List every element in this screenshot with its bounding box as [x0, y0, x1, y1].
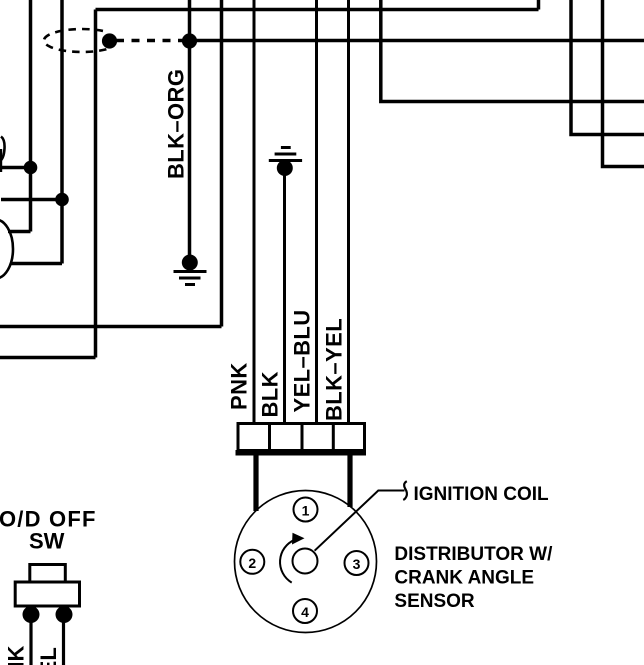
junction dot on V1 [24, 161, 38, 175]
rotation direction arc [280, 540, 295, 583]
connector bottom bar [236, 450, 367, 456]
wire V1 left vertical [29, 0, 33, 232]
rotation arrowhead [292, 533, 305, 545]
wire from left terminal [29, 614, 32, 665]
svg-text:BLK: BLK [258, 371, 283, 417]
distributor terminal 3 [345, 551, 369, 575]
wire V11 stub at top [537, 0, 541, 10]
connector block 4-cavity [238, 424, 365, 451]
svg-text:PNK: PNK [227, 362, 252, 410]
svg-text:2: 2 [248, 555, 256, 571]
component fragment stub at left edge [0, 149, 2, 172]
wire H9 short horizontal [11, 262, 62, 266]
svg-text:1: 1 [302, 503, 310, 519]
leader line to ignition coil [315, 491, 405, 551]
wire H8 short horizontal [8, 230, 31, 234]
svg-text:DISTRIBUTOR W/: DISTRIBUTOR W/ [394, 544, 553, 565]
distributor terminal 4 [293, 599, 317, 623]
wire distributor lead left [253, 455, 258, 511]
junction dot A (left end of dashed link) [102, 33, 117, 48]
svg-text:3: 3 [353, 556, 361, 572]
junction dot on V2 [55, 193, 69, 207]
wire H2 dashed segment between junctions [116, 39, 184, 43]
wire BLK-YEL vertical [347, 0, 350, 424]
distributor body circle [235, 491, 377, 633]
wire H2 solid horizontal from junction to right edge [190, 39, 644, 43]
svg-text:YEL: YEL [36, 647, 61, 665]
component fragment arc at left edge (top) [0, 137, 5, 162]
svg-text:PNK: PNK [4, 645, 29, 665]
wire V5 vertical [220, 0, 224, 327]
svg-text:SENSOR: SENSOR [394, 591, 475, 612]
switch terminal dot left [23, 606, 40, 623]
wire YEL-BLU vertical [315, 0, 318, 424]
wire V3 vertical from top corner [94, 10, 98, 358]
svg-text:SW: SW [29, 528, 65, 553]
wire BLK-ORG vertical [188, 0, 192, 258]
wire BLK vertical [283, 168, 286, 424]
wire from right terminal [62, 614, 65, 665]
wire V2 second vertical [60, 0, 64, 264]
wire V12 vertical to corner [571, 0, 644, 135]
wire H1 top horizontal [96, 8, 539, 12]
junction dot B (BLK-ORG top) [182, 33, 197, 48]
switch terminal dot right [56, 606, 73, 623]
wire H7 horizontal to junction [1, 198, 62, 202]
distributor terminal 2 [240, 550, 264, 574]
svg-text:4: 4 [301, 604, 309, 620]
ground G1 at bottom of BLK-ORG wire [174, 255, 207, 285]
wire H10 horizontal [0, 325, 222, 329]
svg-text:YEL–BLU: YEL–BLU [290, 309, 315, 412]
coil squiggle symbol [403, 481, 407, 500]
O/D OFF switch body main [15, 582, 79, 606]
svg-text:BLK–ORG: BLK–ORG [164, 69, 189, 179]
wire V13 vertical to corner [603, 0, 644, 167]
component fragment circle at left edge (coil) [0, 220, 13, 279]
distributor terminal 1 [240, 498, 368, 624]
ground G2 inverted at top of BLK wire [269, 148, 302, 177]
svg-text:IGNITION COIL: IGNITION COIL [414, 484, 550, 505]
distributor center shaft circle [293, 549, 318, 574]
wire distributor lead right [347, 455, 352, 507]
wire H6 horizontal to junction [0, 166, 31, 170]
connector boundary dashed ellipse [44, 29, 106, 52]
svg-text:BLK–YEL: BLK–YEL [322, 318, 347, 421]
wire PNK vertical [253, 0, 256, 424]
wire H11 horizontal [0, 356, 96, 360]
O/D OFF switch body top [30, 565, 66, 583]
wire V10 vertical to corner [381, 0, 644, 102]
svg-text:CRANK ANGLE: CRANK ANGLE [394, 568, 534, 589]
